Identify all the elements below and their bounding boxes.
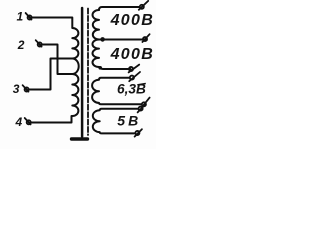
svg-text:4: 4 <box>15 115 23 129</box>
svg-text:1: 1 <box>17 10 24 24</box>
svg-text:400В: 400В <box>110 12 154 29</box>
svg-text:3: 3 <box>13 82 20 96</box>
svg-text:5В: 5В <box>117 113 141 129</box>
svg-text:2: 2 <box>17 38 25 52</box>
svg-text:400В: 400В <box>110 46 154 63</box>
